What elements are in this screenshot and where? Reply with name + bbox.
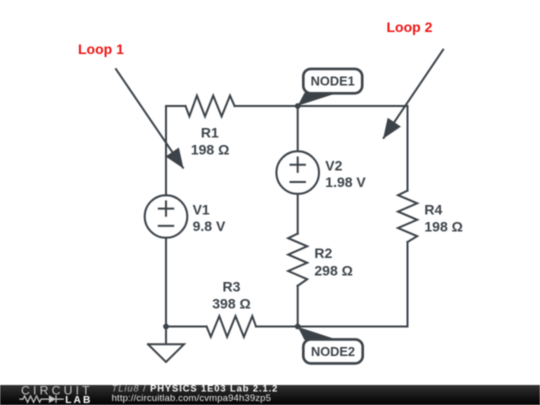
svg-text:R4: R4	[424, 202, 442, 218]
svg-text:Loop 2: Loop 2	[387, 19, 433, 35]
wire R2 to NODE2	[297, 286, 299, 327]
wire V2 to R2	[297, 194, 299, 234]
resistor R2	[288, 234, 307, 286]
svg-text:R3: R3	[223, 279, 241, 295]
svg-text:LAB: LAB	[65, 395, 92, 405]
ground	[148, 327, 184, 363]
footer logo resistor-diode symbol	[19, 395, 63, 403]
svg-text:R1: R1	[201, 125, 219, 141]
node NODE1 label box	[303, 69, 362, 93]
junction dot ground/bottom-left	[163, 324, 169, 330]
wire left side lower (V1 to bottom-left corner)	[165, 238, 167, 327]
svg-text:http://circuitlab.com/cvmpa94h: http://circuitlab.com/cvmpa94h39zp5	[112, 393, 271, 404]
svg-text:9.8 V: 9.8 V	[193, 218, 226, 234]
node NODE2 callout pointer	[298, 327, 337, 340]
node NODE2 label box	[303, 339, 362, 363]
node NODE1 junction dot	[295, 103, 301, 109]
svg-text:198 Ω: 198 Ω	[424, 219, 462, 235]
svg-text:Loop 1: Loop 1	[78, 41, 124, 57]
resistor R4	[398, 191, 417, 242]
node NODE2 junction dot	[295, 324, 301, 330]
svg-text:R2: R2	[314, 245, 332, 261]
voltage source V2	[276, 151, 319, 194]
wire R1 to NODE1 to top-right corner	[235, 105, 408, 107]
annotation Loop 2 arrowhead	[383, 118, 401, 139]
node NODE1 callout pointer	[298, 93, 337, 106]
annotation Loop 1 arrowhead	[166, 148, 184, 169]
wire R3 to NODE2 to bottom-right corner	[256, 326, 408, 328]
svg-text:298 Ω: 298 Ω	[314, 263, 352, 279]
voltage source V1	[145, 195, 188, 238]
svg-text:398 Ω: 398 Ω	[212, 296, 250, 312]
wire top-left to R1 and on to top-right corner	[166, 105, 186, 107]
svg-text:198 Ω: 198 Ω	[191, 141, 229, 157]
svg-text:V2: V2	[325, 158, 342, 174]
svg-text:V1: V1	[193, 202, 210, 218]
resistor R1	[186, 96, 235, 117]
wire bottom-left corner to R3	[166, 326, 207, 328]
svg-text:NODE1: NODE1	[311, 74, 355, 89]
wire R4 to bottom-right corner	[407, 242, 409, 327]
wire right side upper (top-right corner to R4)	[407, 106, 409, 191]
wire left side upper (corner to V1)	[165, 106, 167, 195]
resistor R3	[207, 316, 256, 337]
annotation Loop 2 arrow line	[383, 49, 444, 139]
wire middle upper (NODE1 to V2)	[297, 106, 299, 151]
svg-text:1.98 V: 1.98 V	[325, 174, 366, 190]
svg-text:NODE2: NODE2	[311, 344, 355, 359]
svg-text:TLiu8 / PHYSICS 1E03 Lab 2.1.2: TLiu8 / PHYSICS 1E03 Lab 2.1.2	[112, 382, 279, 393]
annotation Loop 1 arrow line	[115, 68, 183, 168]
